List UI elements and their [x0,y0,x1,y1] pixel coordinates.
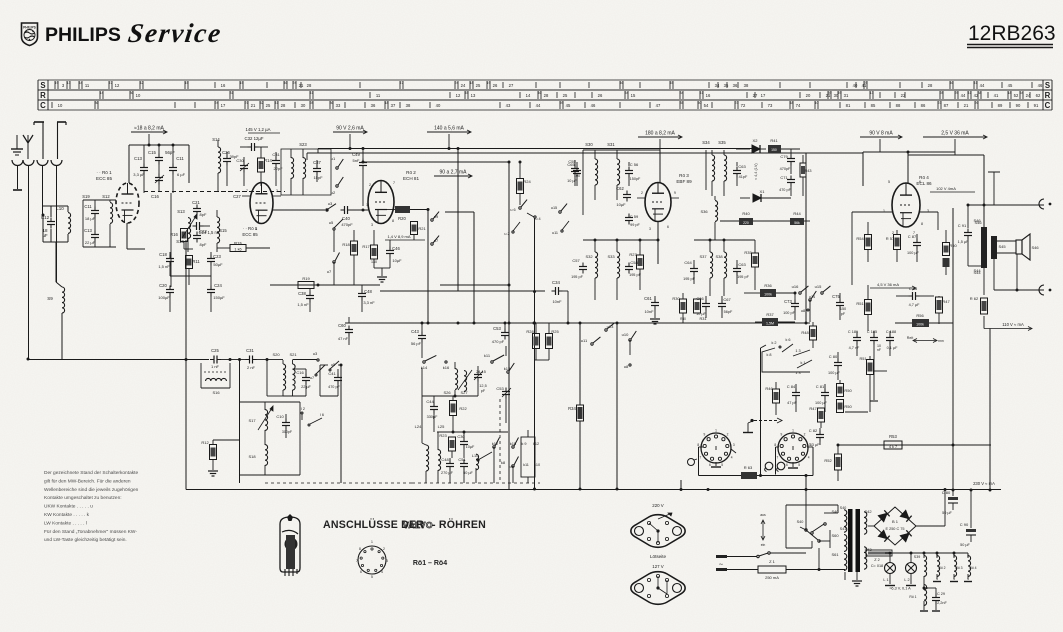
svg-text:EBF 89: EBF 89 [676,179,692,184]
wire x617 vertical [616,323,619,491]
switch u3b [293,351,320,361]
resistor R40 220 [720,211,791,225]
svg-text:100 µF: 100 µF [828,371,841,375]
svg-text:4 k 7: 4 k 7 [889,445,897,449]
svg-text:C 29: C 29 [937,592,945,596]
resistor R52 [824,445,841,481]
switch l6 [308,413,324,426]
aerial socket cup 4 [51,160,62,166]
svg-text:86: 86 [921,103,926,108]
resistor R18 [342,230,357,285]
svg-text:47: 47 [109,81,113,85]
svg-text:35: 35 [680,101,684,105]
capacitor C80 50uF [942,490,958,515]
svg-text:8: 8 [392,219,394,223]
svg-text:41: 41 [974,81,978,85]
wire socket3 down [42,166,44,215]
svg-text:16: 16 [706,93,711,98]
capacitor row C185 [867,330,882,401]
pilot lamp L1 [883,553,895,586]
svg-text:Reit: Reit [907,336,913,340]
voltage selector network [786,505,846,570]
svg-text:50µF: 50µF [213,262,223,267]
svg-text:R51: R51 [860,357,867,361]
svg-text:24: 24 [455,81,459,85]
wire y240 left [583,239,660,242]
detector IF can S34 S35 [702,140,726,196]
capacitor C37 15pF [313,160,323,182]
resistor R63 [741,465,757,479]
svg-text:C 91: C 91 [958,223,967,228]
svg-text:30: 30 [301,103,306,108]
plate 220V [625,503,690,551]
svg-text:R12: R12 [201,440,209,445]
capacitor C90 50uF [960,489,976,548]
heater choke S39 [914,553,927,588]
svg-text:10nF: 10nF [644,309,654,314]
svg-text:1 nF: 1 nF [211,364,220,369]
current label 18V 8.2mA [131,126,167,146]
resistor R53 4k7 [884,434,902,449]
switch u5 [329,219,343,230]
label 110V [984,322,1032,331]
svg-text:C 59: C 59 [630,214,639,219]
mains terminal upper [716,555,727,558]
tube side view [280,514,300,576]
svg-text:X2: X2 [753,138,759,143]
label 102V 4mA [930,186,975,192]
svg-text:74: 74 [796,103,801,108]
svg-text:R52: R52 [824,458,832,463]
svg-text:· · Rö 1: · · Rö 1 [243,226,258,231]
capacitor C56 150pF [625,162,641,186]
capacitor C23 [207,252,223,276]
svg-text:19: 19 [55,81,59,85]
svg-text:C= 018: C= 018 [871,564,883,568]
tube Rö1a ECC85 (dashed triode) [116,183,139,223]
svg-text:8pF: 8pF [200,242,207,247]
coil L25 [438,424,445,483]
svg-text:9: 9 [704,433,706,437]
wire x534 vertical [533,218,536,491]
headphone jack bottom [994,285,1051,295]
svg-text:18: 18 [470,81,474,85]
wire L10 join [42,206,69,242]
vertical x240 [238,358,241,483]
heater choke Ro1 [909,585,928,611]
svg-text:15pF: 15pF [313,175,323,180]
wire lower join [170,276,211,285]
svg-text:R37: R37 [766,312,774,317]
svg-text:56pF: 56pF [165,150,175,155]
capacitor C13 3.3uF [133,145,148,193]
wire x908 down [907,151,910,185]
svg-text:10: 10 [58,103,63,108]
svg-text:- RÖHREN: - RÖHREN [432,518,486,531]
svg-text:u7: u7 [310,376,314,380]
svg-text:S41: S41 [840,527,846,531]
capacitor C31 22pF [272,152,283,186]
svg-text:C 80: C 80 [942,490,951,495]
svg-text:8: 8 [921,222,923,226]
mains wire lower [727,568,845,571]
svg-text:5: 5 [888,180,890,184]
svg-text:≈6,3 V, 0,1 A: ≈6,3 V, 0,1 A [889,587,911,591]
legend Rö1-Rö4 [413,560,447,567]
svg-text:C63: C63 [738,164,746,169]
svg-text:X1: X1 [760,189,766,194]
svg-text:u3: u3 [328,201,333,206]
svg-text:u 2: u 2 [504,232,509,236]
svg-text:28: 28 [940,91,944,95]
svg-text:R54: R54 [856,236,864,241]
chassis bar [743,423,753,433]
dipole arm right [57,122,66,159]
svg-text:220: 220 [743,221,749,225]
coil S18 [248,440,267,475]
transformer core [848,509,860,572]
svg-text:10µF: 10µF [616,202,626,207]
svg-text:C 181: C 181 [848,330,858,334]
capacitor C26 39pF [222,150,239,186]
svg-text:22 µF: 22 µF [85,240,96,245]
switch k16 [443,361,450,370]
svg-text:S30: S30 [585,142,593,147]
IF transformer 2 coils S32 S33 [585,240,619,300]
svg-text:Rö 3: Rö 3 [679,173,689,178]
svg-text:54: 54 [1020,91,1024,95]
capacitor C48b 3.3nF [330,285,380,312]
resistor R17 [362,230,377,268]
wire socketA stub [699,447,737,476]
svg-text:45: 45 [1008,83,1013,88]
svg-text:C24: C24 [214,283,222,288]
svg-text:C67: C67 [723,297,731,302]
resistor R46 [765,382,779,415]
capacitor C61 10nF [644,296,660,324]
svg-text:0,1 µF: 0,1 µF [887,346,899,350]
svg-text:4,5 V 36 mA: 4,5 V 36 mA [877,282,899,287]
svg-text:25: 25 [266,103,271,108]
svg-text:S32: S32 [585,254,593,259]
svg-text:L25: L25 [438,424,445,429]
svg-text:R27: R27 [629,252,637,257]
svg-text:5: 5 [371,575,373,579]
switch u7b [431,236,439,246]
svg-text:k13: k13 [504,366,511,371]
svg-text:C62: C62 [616,186,624,191]
svg-text:S46: S46 [974,220,982,225]
label Rö1 ECC85 [96,170,113,181]
coil S20 [267,352,286,396]
tube Rö2 ECH81 [368,181,394,224]
svg-text:17: 17 [221,103,226,108]
svg-text:S15: S15 [219,228,227,233]
svg-text:B 1: B 1 [892,519,899,524]
svg-text:gilt für den MW-Bereich. Für d: gilt für den MW-Bereich. Für die anderen [44,478,131,484]
svg-text:k12: k12 [492,441,499,446]
capacitor C49 5nF [352,149,367,207]
svg-text:470 pF: 470 pF [328,385,341,389]
svg-text:R43: R43 [805,169,812,173]
svg-text:48: 48 [790,101,794,105]
svg-text:100 µF: 100 µF [815,401,828,405]
resistor R25 [534,323,559,360]
wire y445 [837,444,992,447]
svg-text:C13: C13 [84,228,92,233]
variable coil S13 [176,209,197,252]
svg-text:54: 54 [704,103,709,108]
svg-text:4,7 nF: 4,7 nF [849,346,860,350]
svg-text:26: 26 [975,101,979,105]
resistor R44 56k [790,211,810,225]
svg-text:10: 10 [136,93,141,98]
svg-text:3: 3 [649,227,651,231]
label Rö1b [242,226,258,237]
svg-text:S33: S33 [607,254,615,259]
capacitor C79 470pF [780,149,795,174]
secondary S43 [864,547,872,569]
svg-text:C20: C20 [159,283,167,288]
coil L24 [415,424,429,483]
svg-text:S: S [40,81,45,90]
svg-text:R28: R28 [526,329,534,334]
aerial socket cup 2 [23,160,34,166]
switch rail contact ticks [52,81,1043,109]
svg-text:34: 34 [715,83,720,88]
switch k14 [421,355,437,370]
svg-text:S61: S61 [831,552,839,557]
OT primary bar [974,220,987,268]
capacitor C65 10uF [567,162,581,186]
svg-text:u15: u15 [551,206,557,210]
capacitor C12 [41,215,55,238]
svg-text:330µF: 330µF [427,415,439,419]
svg-text:R11: R11 [192,259,200,264]
coil L10b [472,454,479,483]
label 180V 8.2mA [638,131,682,151]
svg-text:62: 62 [1036,93,1041,98]
svg-text:Rö 3: Rö 3 [955,566,962,570]
svg-text:S16: S16 [212,390,220,395]
wire socket1 down [17,166,19,189]
oscillator box2 S17 S18 [240,402,301,475]
primary winding S61 [831,552,846,570]
svg-text:52: 52 [260,101,264,105]
svg-text:R41: R41 [770,138,778,143]
vertical x761 [761,345,767,476]
svg-text:180 a 8,2 mA: 180 a 8,2 mA [645,131,675,137]
svg-text:≈ 4,4 (1V): ≈ 4,4 (1V) [754,163,758,180]
junction coil pack [422,395,478,398]
capacitor C84 47pF [787,384,800,412]
capacitor C43 56pF [411,322,426,359]
svg-text:2,5 V 36 mA: 2,5 V 36 mA [941,131,969,137]
svg-text:7: 7 [700,455,702,459]
svg-text:R21: R21 [418,226,426,231]
svg-text:42: 42 [140,81,144,85]
svg-text:10µF: 10µF [466,445,475,449]
capacitor C87 100uF [907,234,921,262]
svg-text:R17: R17 [362,244,370,249]
svg-text:u15: u15 [815,284,822,289]
trimmer C53b [496,386,511,423]
coil S36 [700,196,717,240]
capacitor C60 47nF [338,317,353,345]
switch u9 [431,212,439,222]
svg-text:26: 26 [493,83,498,88]
capacitor C55 100pF [568,159,580,186]
svg-text:S45: S45 [998,244,1006,249]
tube Rö4 ECL86 [892,183,920,227]
svg-text:C49: C49 [352,152,360,157]
svg-text:R50: R50 [844,404,852,409]
switch u11b [552,221,569,235]
svg-text:220 V: 220 V [652,503,664,508]
svg-text:25: 25 [955,91,959,95]
svg-text:38: 38 [744,83,749,88]
svg-text:46: 46 [1038,83,1043,88]
resistor R60 [943,230,958,275]
resistor R12 [201,440,239,476]
coil S26 [443,362,457,396]
resistor R19 [298,276,314,289]
switch k9 [509,456,519,483]
svg-text:C38: C38 [298,291,306,296]
svg-text:47 nF: 47 nF [338,336,349,341]
svg-text:R34: R34 [568,406,576,411]
svg-text:2: 2 [369,183,371,187]
svg-text:36: 36 [95,101,99,105]
svg-text:C11: C11 [176,156,184,161]
dashed AVC to C27 [215,192,258,200]
svg-text:C 185: C 185 [867,330,877,334]
label 2.5V 36mA [923,131,987,153]
svg-text:R50: R50 [844,388,852,393]
svg-text:4: 4 [381,570,383,574]
svg-text:S36: S36 [700,209,708,214]
wire rail left drop [307,149,318,161]
coil S17 variable [248,402,273,440]
right vertical x990 [989,329,992,492]
svg-text:C46: C46 [392,246,400,251]
svg-text:ECC 85: ECC 85 [96,176,113,181]
trimmer C16 [151,174,164,200]
svg-text:10: 10 [815,101,819,105]
label 4.5V 36mA [870,282,916,290]
svg-text:11: 11 [85,83,90,88]
svg-text:20: 20 [806,93,811,98]
capacitor C29 2.2nF [924,588,948,611]
svg-text:und LW-Taste gleichzeitig betä: und LW-Taste gleichzeitig betätigt sein. [44,537,127,543]
svg-text:23: 23 [938,101,942,105]
capacitor C57 195pF [571,258,587,279]
switch u11 [581,337,601,345]
svg-text:C58: C58 [630,260,638,265]
capacitor C11 6uF [169,145,186,193]
svg-text:KW Kontakte . . . . . k: KW Kontakte . . . . . k [44,512,90,518]
svg-text:R: R [40,91,46,100]
svg-text:C18: C18 [159,252,167,257]
capacitor C34 10nF [552,280,569,304]
svg-text:L 2: L 2 [904,578,909,582]
contact frame k-group [521,430,540,483]
resistor R48 [801,322,816,348]
svg-text:250 mA: 250 mA [765,575,779,580]
svg-text:81: 81 [846,103,851,108]
svg-text:R 63: R 63 [744,465,753,470]
capacitor C67 56pF [718,296,733,318]
diode X1 [740,189,791,202]
svg-text:45: 45 [566,103,571,108]
primary winding S40 [831,509,846,532]
svg-text:u8: u8 [624,364,629,369]
pilot lamp L2 [904,553,916,586]
svg-text:3: 3 [371,223,373,227]
svg-text:52: 52 [1014,93,1019,98]
svg-text:S46: S46 [1031,245,1039,250]
svg-text:R: R [1045,91,1051,100]
svg-text:2: 2 [276,189,278,193]
svg-text:23: 23 [735,101,739,105]
svg-text:36: 36 [130,91,134,95]
svg-text:99 pF: 99 pF [630,223,640,227]
svg-text:47: 47 [656,103,661,108]
capacitor C15 56pF [148,145,175,175]
wire cathode gnd [374,268,390,282]
svg-text:11: 11 [376,93,381,98]
Service script wordmark [126,18,222,48]
svg-text:26: 26 [598,93,603,98]
annotation arrow [907,336,944,343]
label 145V [246,127,280,133]
speaker [1016,234,1039,260]
svg-text:pF: pF [841,312,846,316]
svg-text:25: 25 [476,83,481,88]
switch u4 [527,213,541,221]
svg-text:22pF: 22pF [273,166,283,171]
svg-text:u2: u2 [331,190,336,195]
svg-text:27: 27 [509,83,514,88]
bridge rectifier B1 [868,488,947,545]
capacitor C58 195pF [625,260,642,277]
svg-text:Wellenbereiche sind die jeweil: Wellenbereiche sind die jeweils zugehöri… [44,487,139,493]
wire Rö1b anode to mixer [273,209,325,211]
wire x568 down [567,291,569,323]
coil S30 [585,142,597,200]
svg-text:2 nF: 2 nF [247,365,256,370]
svg-text:R23: R23 [439,433,447,438]
svg-text:102 V 4mA: 102 V 4mA [936,186,956,191]
svg-text:27: 27 [753,93,758,98]
svg-text:u5: u5 [329,220,334,225]
svg-text:S21: S21 [289,352,297,357]
capacitor C18 1.5nF [158,252,174,276]
svg-text:S35: S35 [718,140,726,145]
capacitor C63 41pF [733,162,748,186]
svg-text:140 a 5,6 mA: 140 a 5,6 mA [434,126,464,132]
svg-text:46: 46 [620,81,624,85]
svg-text:2: 2 [727,433,729,437]
svg-text:ECH 81: ECH 81 [403,176,420,181]
capacitor C46 10uF [386,240,402,268]
svg-text:L10: L10 [56,206,64,211]
wire S9 to bus [27,330,63,361]
legend socket circle [356,540,388,579]
svg-text:7: 7 [356,559,358,563]
svg-text:u16: u16 [792,284,799,289]
resistor R22 [450,396,468,432]
